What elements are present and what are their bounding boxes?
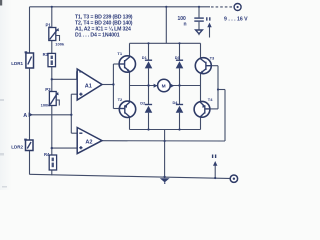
svg-text:A1, A2 = IC1 = ¼ LM 324: A1, A2 = IC1 = ¼ LM 324 (75, 26, 131, 33)
svg-text:LDR2: LDR2 (11, 144, 23, 149)
svg-text:M: M (162, 83, 166, 89)
svg-text:T3: T3 (210, 56, 215, 61)
svg-text:R4: R4 (44, 152, 50, 157)
svg-text:n: n (184, 22, 187, 28)
svg-text:100k: 100k (41, 103, 51, 108)
svg-text:D4: D4 (173, 100, 179, 105)
svg-text:9 . . . 16 V: 9 . . . 16 V (224, 17, 248, 23)
svg-text:D1 . . . D4 = 1N4001: D1 . . . D4 = 1N4001 (75, 33, 120, 39)
svg-text:P3: P3 (45, 87, 51, 92)
svg-text:100k: 100k (55, 41, 65, 46)
svg-text:A2: A2 (85, 140, 92, 146)
svg-text:P1: P1 (46, 23, 52, 28)
svg-text:D3: D3 (175, 55, 181, 60)
svg-text:A1: A1 (85, 84, 92, 90)
svg-text:R3: R3 (43, 52, 49, 57)
svg-text:D1: D1 (142, 55, 148, 60)
svg-text:T2: T2 (118, 97, 123, 102)
svg-text:T1: T1 (117, 51, 122, 56)
svg-text:D2: D2 (140, 100, 146, 105)
svg-text:T4: T4 (208, 97, 213, 102)
svg-text:A: A (23, 113, 27, 119)
svg-text:LDR1: LDR1 (11, 61, 23, 66)
